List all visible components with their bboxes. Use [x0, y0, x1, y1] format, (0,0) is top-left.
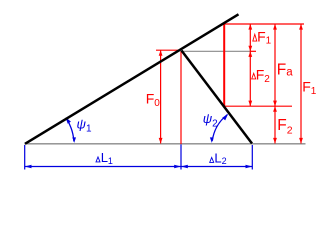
red top reference line y=24: [224, 23, 304, 25]
label dL2: [210, 157, 214, 162]
blue extension line left x=24.7: [24, 145, 26, 170]
label dF2: [252, 73, 256, 79]
svg-text:F1: F1: [257, 28, 272, 46]
characteristic line 1 (black): [25, 14, 239, 144]
dimension F0 vertical: [160, 50, 162, 143]
label dL1: [96, 157, 100, 162]
characteristic line 2 (black): [182, 51, 253, 144]
angle arc psi2: [212, 115, 227, 141]
baseline (gray horizontal axis): [25, 143, 306, 145]
svg-text:F2: F2: [256, 67, 271, 86]
dimension dL1 horizontal: [25, 166, 181, 168]
svg-text:ψ2: ψ2: [203, 111, 218, 129]
red projection line x=224: [223, 24, 225, 106]
red tick at F0 top: [156, 49, 179, 51]
red extension line at apex x=181: [180, 51, 182, 144]
blue extension line right x=252.3: [251, 145, 253, 170]
svg-text:Fa: Fa: [277, 61, 293, 78]
svg-text:F1: F1: [302, 78, 317, 97]
label dF1: [253, 34, 257, 41]
svg-text:L2: L2: [214, 150, 226, 166]
dimension F1 vertical x=301: [300, 24, 302, 144]
svg-text:F2: F2: [277, 117, 292, 137]
angle arc psi1: [66, 118, 74, 141]
gray reference line at apex level: [183, 50, 251, 52]
blue extension line mid x=181: [180, 145, 182, 170]
red tick right of dF chain: [251, 50, 257, 52]
dimension chain Fa/F2 vertical x=275: [274, 24, 276, 144]
dimension chain dF1/dF2 vertical x=250: [249, 24, 251, 106]
svg-text:ψ1: ψ1: [77, 116, 92, 134]
dimension dL2 horizontal: [181, 166, 252, 168]
svg-text:L1: L1: [101, 150, 113, 166]
svg-text:F0: F0: [146, 91, 161, 110]
red mid reference line y=106: [224, 105, 292, 107]
